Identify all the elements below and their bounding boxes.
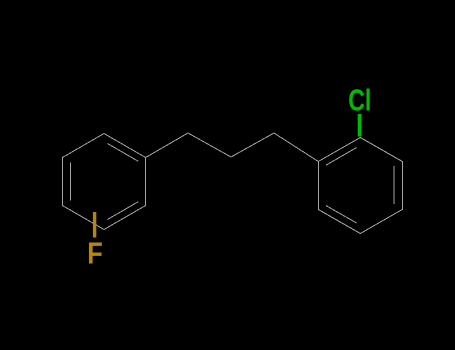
aromatic inner line R2 lower-left edge	[326, 206, 357, 223]
wire: chain bond C2-C3	[231, 133, 274, 157]
aromatic inner line R1 left edge	[70, 163, 72, 201]
wire: chain bond C1-C2	[188, 133, 231, 157]
benzene ring R2 (chlorophenyl, right)	[318, 138, 402, 234]
aromatic inner line R2 right edge	[393, 166, 395, 204]
svg-text:F: F	[87, 236, 103, 271]
bond to F (gold)	[93, 212, 96, 238]
wire: bond R1 to chain C1	[146, 133, 188, 158]
svg-text:Cl: Cl	[348, 83, 371, 118]
aromatic inner line R2 upper-left edge	[326, 148, 357, 166]
bond to Cl (green)	[358, 114, 362, 137]
benzene ring R1 (fluorophenyl, left)	[62, 134, 145, 230]
aromatic inner line R1 lower-right edge	[108, 202, 139, 220]
aromatic inner line R1 upper-right edge	[108, 144, 139, 162]
wire: bond C3 to R2	[274, 133, 318, 162]
